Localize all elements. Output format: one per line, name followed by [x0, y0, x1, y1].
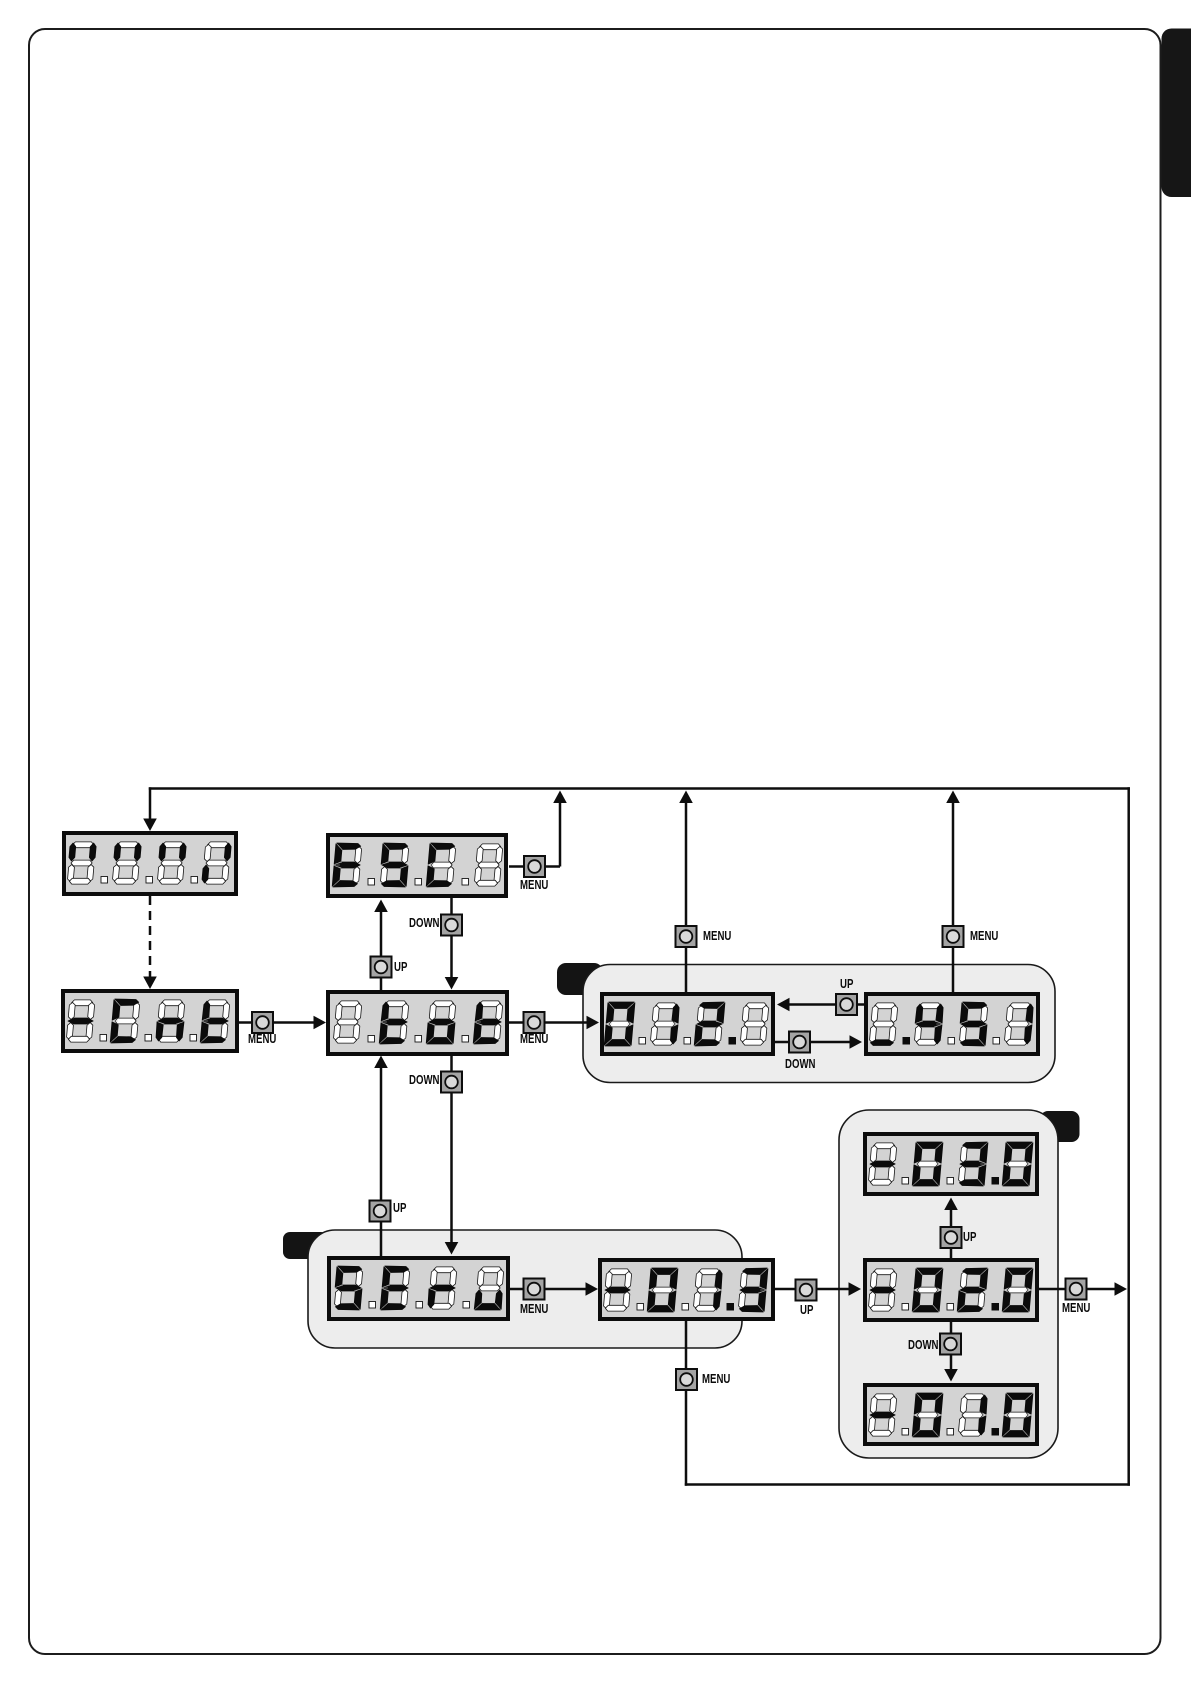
label UP after d013	[800, 1304, 813, 1317]
label MENU after tot	[520, 1033, 548, 1046]
container value-select (rounded panel)	[839, 1110, 1058, 1458]
black tab of container tot-value	[557, 963, 603, 995]
wire up col SErU to tot	[380, 1066, 383, 1256]
wire dashed uuu1 to Cnt	[149, 896, 152, 978]
wire value menu exit	[1039, 1288, 1117, 1291]
display SErU	[329, 1258, 508, 1319]
wire top loop line	[149, 787, 1130, 790]
label MENU below d013	[702, 1373, 730, 1386]
arrowhead into display uuu1	[143, 819, 157, 832]
button UP in value-select	[941, 1227, 962, 1248]
wire value up col	[950, 1207, 953, 1258]
display d010	[865, 1385, 1037, 1444]
page corner tab (black)	[1162, 29, 1191, 198]
display Cnt	[63, 991, 237, 1051]
button MENU after tot	[524, 1012, 545, 1033]
button UP in pair	[836, 994, 857, 1015]
wire up col tot to ESC	[380, 910, 383, 990]
arrowhead ESC menu to top line	[553, 791, 567, 804]
wire return line below d013	[685, 1321, 688, 1486]
label DOWN in pair	[785, 1058, 815, 1071]
display ESC	[328, 835, 506, 896]
arrowhead into display d02	[849, 1282, 862, 1296]
display 012	[602, 994, 773, 1054]
display d013	[600, 1260, 773, 1319]
button MENU above 451	[943, 926, 964, 947]
container tot-value (rounded panel)	[583, 965, 1055, 1083]
button DOWN below ESC	[441, 915, 462, 936]
wire down col tot to SErU	[450, 1056, 453, 1244]
display uuu1	[64, 833, 236, 894]
container SErU (rounded panel)	[308, 1230, 742, 1348]
wire d013 up to value-select	[775, 1288, 851, 1291]
label MENU exit value-select	[1062, 1302, 1090, 1315]
arrowhead into 012 right side	[777, 998, 790, 1012]
label UP in value-select	[963, 1231, 976, 1244]
button MENU exit value-select	[1066, 1279, 1087, 1300]
button MENU below d013	[676, 1369, 697, 1390]
wire ESC menu vert	[559, 800, 562, 867]
button UP to ESC	[371, 957, 392, 978]
arrowhead 451 menu to top line	[946, 791, 960, 804]
arrowhead into display d01 top	[944, 1369, 958, 1382]
button MENU after SErU	[524, 1279, 545, 1300]
wire bottom loop line	[685, 1483, 1130, 1486]
arrowhead into display Cnt	[143, 977, 157, 990]
wire value down col	[950, 1322, 953, 1371]
wire menu up from 012	[685, 800, 688, 992]
button MENU above 012	[676, 926, 697, 947]
arrowhead into SErU top	[445, 1242, 459, 1255]
button MENU after ESC	[524, 856, 545, 877]
black tab of container SErU	[283, 1232, 328, 1259]
label DOWN in value-select	[908, 1339, 938, 1352]
wire pair up arrow line	[788, 1003, 864, 1006]
button UP to tot	[370, 1201, 391, 1222]
label DOWN below ESC	[409, 917, 439, 930]
label UP in pair	[840, 978, 853, 991]
wire down col ESC to tot	[450, 898, 453, 979]
display tot	[328, 992, 507, 1054]
button DOWN in value-select	[940, 1334, 961, 1355]
arrowhead into display tot	[314, 1016, 327, 1030]
arrowhead into tot top	[445, 977, 459, 990]
display 451	[866, 994, 1038, 1054]
arrowhead into 451 left side	[850, 1035, 863, 1049]
label MENU above 451	[970, 930, 998, 943]
wire SErU menu to d013	[510, 1288, 589, 1291]
black tab of container value-select	[1040, 1111, 1080, 1142]
button UP after d013	[796, 1280, 817, 1301]
arrowhead into display d013	[586, 1282, 599, 1296]
wire Cnt menu to tot	[239, 1021, 317, 1024]
label MENU above 012	[703, 930, 731, 943]
label DOWN below tot	[409, 1074, 439, 1087]
arrowhead into display d03 bottom	[944, 1198, 958, 1211]
wire ESC menu horiz	[509, 865, 560, 868]
arrowhead into ESC bottom	[374, 900, 388, 913]
label UP to ESC	[394, 961, 407, 974]
label MENU after SErU	[520, 1303, 548, 1316]
arrowhead into display 012	[587, 1016, 600, 1030]
label MENU after ESC	[520, 879, 548, 892]
wire menu up from 451	[952, 800, 955, 992]
wire entry into display uuu1	[149, 787, 152, 822]
button DOWN below tot	[441, 1072, 462, 1093]
label MENU after Cnt	[248, 1033, 276, 1046]
wire tot menu to pair	[509, 1021, 590, 1024]
label UP to tot	[393, 1202, 406, 1215]
wire pair down arrow line	[775, 1041, 852, 1044]
wire right loop line	[1127, 787, 1130, 1485]
arrowhead to right loop line	[1115, 1282, 1128, 1296]
button MENU after Cnt	[252, 1012, 273, 1033]
display d020	[865, 1260, 1037, 1320]
display d030	[865, 1134, 1037, 1194]
arrowhead 012 menu to top line	[679, 791, 693, 804]
arrowhead into tot bottom	[374, 1056, 388, 1069]
button DOWN in pair	[789, 1032, 810, 1053]
